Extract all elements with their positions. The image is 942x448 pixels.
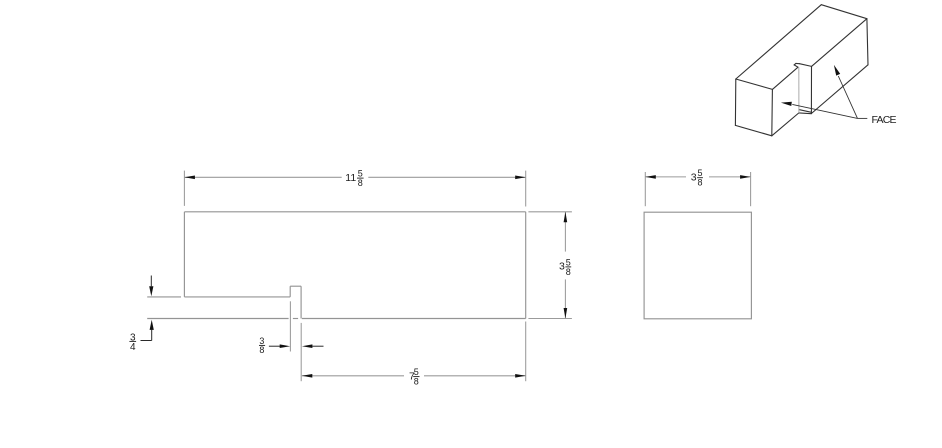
arrowhead right — [740, 175, 751, 179]
svg-text:3: 3 — [559, 261, 565, 273]
svg-text:3: 3 — [691, 172, 697, 184]
wire ext line left — [300, 323, 302, 381]
svg-text:8: 8 — [697, 178, 702, 188]
arrowhead right — [515, 374, 526, 378]
wire left block top front edge — [772, 67, 798, 89]
wire right portion top front edge — [812, 19, 867, 67]
wire arrow line right — [312, 345, 323, 347]
dimension 7 5/8 — [301, 322, 526, 387]
wire slot left wall — [289, 286, 291, 297]
wire left edge — [183, 212, 185, 297]
arrowhead pointing right — [280, 344, 291, 348]
wire dim line right — [424, 375, 526, 377]
isometric view of part — [735, 5, 868, 136]
wire slot right wall — [300, 286, 302, 318]
svg-text:5: 5 — [414, 367, 419, 377]
wire top edge — [184, 211, 525, 213]
wire ext line bottom — [528, 318, 572, 320]
dimension 3/4 rabbet depth — [129, 276, 153, 354]
wire dim line left — [645, 176, 686, 178]
arrowhead up — [564, 212, 568, 223]
wire slot notch back edge — [796, 62, 800, 64]
arrowhead left face — [781, 102, 792, 106]
svg-text:8: 8 — [259, 345, 264, 355]
wire slot notch corner — [794, 63, 796, 65]
wire dim line lower — [564, 279, 566, 318]
wire left end left edge — [734, 79, 736, 125]
wire slot left wall (profile) — [798, 67, 800, 113]
svg-text:8: 8 — [358, 178, 363, 188]
wire slot floor bottom edge — [799, 110, 812, 113]
wire bottom edge dash — [293, 318, 298, 320]
wire dim line right — [368, 176, 525, 178]
svg-text:FACE: FACE — [872, 114, 897, 126]
wire ext line right — [525, 171, 527, 207]
wire rabbet bottom extension line — [147, 296, 181, 298]
wire bottom edge left extension — [147, 318, 288, 320]
wire slot right wall — [810, 66, 812, 113]
arrowhead left — [645, 175, 656, 179]
svg-text:5: 5 — [566, 257, 571, 267]
wire lower arrow shaft — [151, 330, 153, 341]
wire ext line right — [750, 172, 752, 206]
wire leader to right face arrow — [838, 76, 857, 118]
wire rabbet bottom edge — [184, 296, 290, 298]
svg-text:11: 11 — [345, 172, 356, 184]
side view square — [644, 212, 751, 319]
wire right edge — [525, 212, 527, 319]
arrowhead right face — [834, 65, 840, 76]
arrowhead down — [564, 308, 568, 319]
wire upper arrow shaft — [150, 276, 152, 287]
wire ext line left — [289, 301, 291, 351]
wire bottom edge — [302, 318, 526, 320]
wire left end right vertical edge — [771, 89, 774, 135]
svg-text:4: 4 — [130, 342, 136, 353]
wire slot bottom notch edge — [799, 112, 811, 115]
svg-text:8: 8 — [414, 376, 419, 386]
dimension 11 5/8 — [184, 168, 525, 206]
wire dim line right — [709, 176, 751, 178]
wire left end bottom edge — [735, 125, 771, 135]
arrowhead right — [515, 176, 526, 180]
leader lines FACE — [792, 76, 867, 118]
wire square — [644, 212, 751, 319]
wire ext line top — [528, 211, 572, 213]
svg-text:5: 5 — [697, 168, 702, 178]
wire ext line left — [183, 171, 185, 206]
wire top back long edge — [736, 5, 822, 79]
wire leader to left face arrow — [792, 104, 857, 118]
wire left end top edge — [736, 79, 773, 89]
svg-text:8: 8 — [566, 267, 571, 277]
wire leader horizontal — [858, 117, 868, 119]
wire dim line left — [184, 176, 341, 178]
wire right front vertical edge — [867, 19, 868, 65]
wire dim line left — [302, 375, 404, 377]
dimension 3 5/8 right side — [528, 212, 572, 319]
wire left block bottom front edge — [772, 113, 799, 136]
arrowhead left — [302, 374, 313, 378]
wire slot top — [290, 285, 301, 287]
wire ext line left — [644, 172, 646, 206]
wire right end top edge — [821, 5, 867, 19]
front view outline — [147, 212, 526, 319]
dimension 3/8 slot width — [259, 301, 324, 355]
arrowhead pointing left — [302, 344, 313, 348]
arrowhead left — [184, 176, 195, 180]
wire slot notch left edge — [794, 65, 798, 67]
arrowhead up — [150, 320, 154, 330]
wire ext line right — [525, 322, 527, 382]
dimension 3 5/8 side view — [645, 168, 750, 206]
wire right portion bottom front edge — [811, 65, 868, 114]
wire dim line upper — [564, 212, 566, 252]
svg-text:5: 5 — [358, 168, 363, 178]
wire arrow line left — [269, 345, 281, 347]
wire slot floor top edge — [800, 64, 812, 67]
wire elbow — [141, 340, 152, 342]
arrowhead down — [149, 286, 153, 296]
